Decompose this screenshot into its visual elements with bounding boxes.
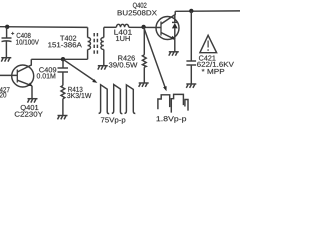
label 1UH (116, 36, 130, 41)
ground below T402 secondary (98, 66, 108, 70)
ground below R426 (139, 83, 149, 87)
wire B+ rail top-left (0, 26, 88, 29)
ground below C408 (1, 58, 11, 62)
label 10/100V (16, 39, 39, 44)
label 39/0.5W (109, 62, 138, 67)
ground below Q402 emitter (169, 52, 179, 56)
ground below C421 (186, 84, 196, 88)
node junction at C421 (189, 9, 193, 13)
label L401 (114, 30, 131, 35)
wire C408 lead upper (6, 27, 8, 38)
ground below R413 (58, 116, 68, 120)
transistor Q401 (12, 59, 34, 87)
wire C421 top lead (190, 11, 192, 61)
label Q401 (21, 105, 39, 111)
transformer T402 primary winding (88, 27, 91, 59)
waveform 75Vp-p (99, 85, 136, 114)
label 151-386A (48, 42, 82, 47)
label 75Vp-p (101, 117, 125, 123)
waveform 1.8Vp-p (158, 94, 188, 112)
wire C421 bottom lead (190, 65, 192, 84)
label R413 (68, 87, 82, 92)
capacitor C421 (186, 61, 196, 65)
label Q402 (133, 3, 147, 9)
warning triangle (200, 35, 217, 52)
wire Q401 emitter lead (31, 86, 33, 99)
capacitor C408 (2, 32, 15, 42)
wire arrow to 1.8Vp-p waveform (144, 27, 166, 88)
wire R413 to ground (62, 99, 64, 116)
transformer T402 core (93, 33, 95, 56)
wire Q401 base lead (0, 74, 17, 76)
label 427 (0, 87, 10, 92)
resistor R426 (142, 55, 146, 67)
wire R426 to ground (143, 67, 145, 83)
label C2230Y (15, 112, 43, 117)
label BU2508DX (118, 10, 157, 15)
wire C408 lead lower (5, 41, 7, 58)
wire Q402 emitter lead (174, 39, 176, 52)
inductor L401 (116, 24, 128, 27)
wire collector bus y59 (31, 58, 87, 60)
capacitor C409 (58, 68, 69, 72)
wire L401 to Q402 base (129, 26, 161, 28)
label C408 (17, 33, 31, 38)
wire C409 upper lead (62, 59, 64, 68)
wire collector rail top-right (175, 10, 240, 12)
label C409 (39, 67, 56, 72)
transistor Q402 (156, 11, 179, 39)
label R426 (118, 55, 135, 60)
ground below Q401 emitter (28, 99, 38, 103)
transformer T402 secondary winding (101, 27, 104, 65)
label * MPP (202, 69, 225, 74)
label 0.01M (37, 73, 55, 78)
label 3K3/1W (67, 93, 91, 98)
node junction at Q402 base (141, 25, 145, 29)
wire R426 top lead (143, 28, 145, 55)
wire arrow to 75Vp-p waveform (63, 59, 95, 81)
wire secondary to L401 (104, 26, 117, 28)
label T402 (60, 36, 76, 41)
wire C409 to R413 (62, 72, 64, 86)
diode damper inside Q402 (172, 15, 178, 39)
label C421 (199, 55, 216, 60)
node junction at C409 (61, 57, 65, 61)
label 20 (0, 92, 6, 97)
label 1.8Vp-p (157, 116, 187, 123)
resistor R413 (61, 86, 65, 99)
node junction at C408 (5, 25, 9, 29)
label 622/1.6KV (197, 62, 234, 67)
